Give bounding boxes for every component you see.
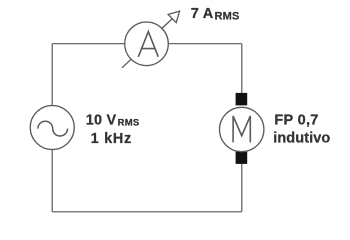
svg-text:1 kHz: 1 kHz — [91, 131, 132, 147]
svg-text:indutivo: indutivo — [273, 131, 330, 147]
svg-text:7 ARMS: 7 ARMS — [191, 6, 240, 23]
svg-text:10 VRMS: 10 VRMS — [86, 113, 140, 129]
svg-text:FP 0,7: FP 0,7 — [274, 112, 318, 128]
